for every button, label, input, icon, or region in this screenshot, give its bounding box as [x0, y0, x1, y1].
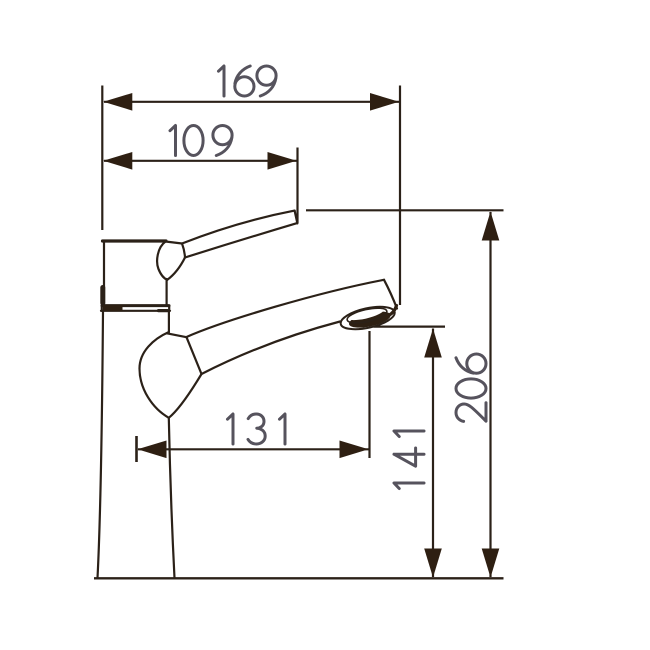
dimension line 206 vertical: [489, 212, 491, 577]
dimension line 109: [104, 160, 297, 162]
arrowhead 169 right: [370, 93, 399, 111]
handle lever tip face: [295, 211, 298, 224]
arrowhead 109 left: [103, 152, 132, 170]
cartridge block left edge dark lower part: [100, 288, 105, 304]
extension line right of 169 (x=400): [399, 86, 401, 306]
aerator inner highlight: [345, 304, 386, 323]
cartridge block top edge: [103, 239, 167, 242]
aerator outer ring: [339, 303, 397, 334]
extension line below spout outlet (x=369.5): [368, 331, 370, 458]
arrowhead 141 top: [424, 329, 442, 358]
pivot ball left profile: [157, 242, 167, 280]
horizontal extension line at faucet top (y=210.3): [306, 209, 504, 211]
tick bar at faucet centre for 131: [135, 436, 138, 462]
arrowhead 131 left: [138, 441, 167, 459]
spout bottom edge: [202, 322, 341, 375]
spout tip right face: [384, 280, 397, 309]
dimension line 141 vertical: [432, 329, 434, 578]
text 169: [219, 66, 277, 96]
aerator: [339, 303, 397, 334]
cartridge block left edge: [103, 241, 105, 305]
escutcheon flange dark left fill: [103, 305, 123, 311]
spout tip bottom dark segment: [389, 306, 397, 316]
spout root top connector: [167, 333, 187, 337]
arrowhead 109 right: [268, 152, 297, 170]
pivot ball top line: [166, 242, 183, 244]
text 109: [170, 126, 232, 156]
escutcheon flange left connector: [101, 306, 103, 311]
arrowhead 206 top: [482, 212, 500, 241]
spout top back edge: [187, 280, 385, 337]
handle lever bottom edge: [185, 223, 297, 257]
dimension texts drawn as geometric digit strokes: [170, 66, 486, 489]
escutcheon flange bottom edge: [101, 310, 170, 312]
arrowhead 206 bottom: [482, 549, 500, 578]
text 141 rotated: [394, 431, 424, 489]
base column left edge: [98, 311, 104, 578]
text 206 rotated: [456, 354, 486, 421]
cartridge block right edge: [166, 279, 168, 305]
handle lever collar: [182, 244, 185, 258]
base column right edge: [169, 418, 175, 578]
extension line left (x=102): [101, 86, 103, 231]
arrowhead 131 right: [340, 441, 369, 459]
escutcheon flange dark right tick: [159, 309, 168, 312]
cartridge block bottom edge: [102, 304, 169, 307]
dimension line 169: [104, 101, 399, 103]
aerator inner ring: [346, 305, 388, 326]
spout root underside: [169, 374, 202, 418]
body right edge above spout root: [168, 311, 170, 332]
spout root crease: [187, 337, 202, 374]
spout root dome arc: [140, 332, 169, 418]
pivot ball lower right arc: [167, 258, 185, 280]
handle lever top edge: [182, 211, 295, 244]
extension line right of 109 (x=297.5): [296, 148, 298, 224]
escutcheon flange right connector: [168, 306, 170, 311]
text 131: [228, 414, 286, 444]
aerator dark lower crescent: [348, 308, 393, 330]
ground baseline: [94, 577, 504, 579]
arrowhead 141 bottom: [424, 549, 442, 578]
horizontal extension line at spout outlet (y=326.6): [374, 326, 446, 328]
arrowhead 169 left: [103, 93, 132, 111]
faucet outline: [98, 211, 398, 578]
dimension line 131: [138, 448, 369, 450]
